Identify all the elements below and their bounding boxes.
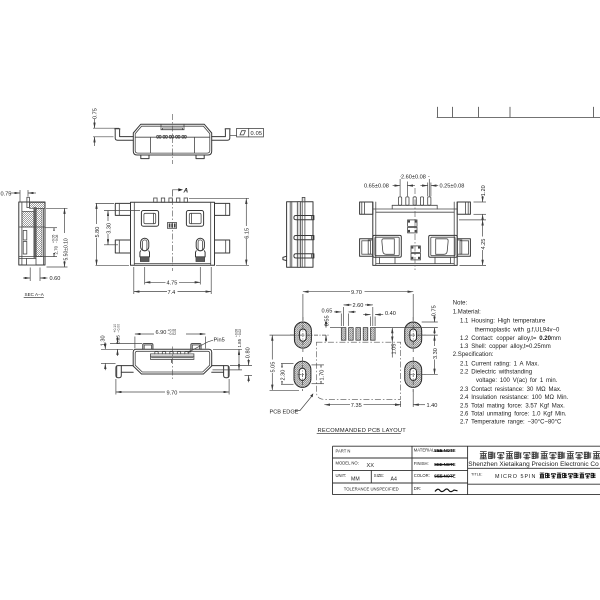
svg-text:2.60: 2.60 (353, 303, 364, 309)
svg-text:FINISH:: FINISH: (414, 461, 429, 466)
svg-text:2.1 Current rating: 1 A M: 2.1 Current rating: 1 A Max. (460, 362, 539, 368)
svg-text:A: A (183, 187, 189, 194)
svg-text:1.05: 1.05 (392, 344, 398, 355)
svg-text:9.70: 9.70 (351, 290, 362, 296)
svg-text:PART N: PART N (336, 448, 351, 453)
svg-text:voltage: 100 V(ac) for 1: voltage: 100 V(ac) for 1 min. (476, 378, 558, 384)
svg-text:0.05: 0.05 (251, 131, 263, 137)
svg-text:5.50±0.10: 5.50±0.10 (63, 238, 69, 260)
svg-text:1.Material:: 1.Material: (453, 310, 481, 316)
svg-text:1.70: 1.70 (319, 370, 325, 381)
svg-text:0.80: 0.80 (246, 347, 252, 358)
svg-text:0.25: 0.25 (116, 335, 121, 344)
svg-text:RECOMMANDED PCB LAYOUT: RECOMMANDED PCB LAYOUT (318, 428, 407, 434)
svg-text:COLOR:: COLOR: (414, 473, 430, 478)
svg-text:0.65±0.08: 0.65±0.08 (364, 184, 389, 190)
svg-text:−0.02: −0.02 (238, 329, 242, 337)
svg-text:MICRO 5PIN: MICRO 5PIN (495, 474, 536, 480)
svg-text:XX: XX (367, 463, 375, 469)
svg-text:1.1 Housing: High temperatu: 1.1 Housing: High temperature (460, 319, 546, 325)
svg-text:6.15: 6.15 (245, 228, 251, 239)
svg-text:2.30: 2.30 (280, 370, 286, 381)
svg-text:1.3 Shell: copper alloy,t=0: 1.3 Shell: copper alloy,t=0.25mm (460, 344, 551, 350)
svg-text:Pin5: Pin5 (214, 338, 225, 344)
svg-text:2.2 Dielectric withstanding: 2.2 Dielectric withstanding (460, 370, 532, 376)
svg-text:2.6 Total unmating force:: 2.6 Total unmating force: 1.0 Kgf Min. (460, 412, 567, 418)
svg-text:1.85: 1.85 (237, 338, 242, 347)
svg-text:Shenzhen Xietaikang Precision: Shenzhen Xietaikang Precision Electronic… (468, 461, 599, 468)
svg-text:2.4 Insulation resistance:: 2.4 Insulation resistance: 100 MΩ Min. (460, 395, 569, 401)
svg-text:5.80: 5.80 (95, 227, 101, 238)
svg-text:0.55: 0.55 (324, 315, 330, 326)
svg-text:A4: A4 (391, 477, 397, 483)
svg-text:7.4: 7.4 (168, 290, 176, 296)
svg-text:1.20: 1.20 (481, 185, 487, 196)
svg-text:MM: MM (351, 477, 360, 483)
svg-text:0.75: 0.75 (431, 305, 437, 316)
svg-text:TOLERANCE UNSPECIFIED: TOLERANCE UNSPECIFIED (344, 486, 399, 491)
svg-text:SIZE:: SIZE: (374, 473, 384, 478)
svg-text:−0.00: −0.00 (117, 324, 121, 333)
svg-text:0.75: 0.75 (92, 108, 98, 119)
svg-text:2.60±0.08: 2.60±0.08 (401, 174, 426, 180)
svg-text:thermoplastic with g.f,UL94v: thermoplastic with g.f,UL94v−0 (475, 328, 560, 334)
svg-text:SEC A−A: SEC A−A (25, 292, 45, 297)
svg-text:6.90: 6.90 (156, 330, 167, 336)
svg-text:3.30: 3.30 (106, 223, 112, 234)
svg-text:7.35: 7.35 (351, 403, 362, 409)
svg-text:0.65: 0.65 (322, 309, 333, 315)
svg-text:TITLE:: TITLE: (471, 473, 482, 477)
svg-text:4.75: 4.75 (167, 281, 178, 287)
svg-text:1.40: 1.40 (427, 403, 438, 409)
svg-text:1.30: 1.30 (100, 335, 106, 346)
svg-text:2.5 Total mating force: 3.: 2.5 Total mating force: 3.57 Kgf Max. (460, 404, 565, 410)
svg-text:2.3 Contact resistance: 30: 2.3 Contact resistance: 30 MΩ Max. (460, 387, 562, 393)
svg-text:2.70: 2.70 (54, 245, 59, 254)
svg-text:2.7 Temperature range: −30°: 2.7 Temperature range: −30°C~80°C (460, 420, 562, 426)
svg-text:DR:: DR: (414, 486, 421, 491)
svg-text:PCB EDGE: PCB EDGE (270, 409, 299, 415)
svg-text:2.Specification:: 2.Specification: (453, 352, 494, 358)
svg-text:0.25±0.08: 0.25±0.08 (440, 184, 465, 190)
svg-text:0.75: 0.75 (1, 191, 12, 197)
svg-text:4.25: 4.25 (481, 239, 487, 250)
svg-text:UNIT:: UNIT: (336, 473, 346, 478)
svg-text:Note:: Note: (453, 301, 468, 307)
svg-text:−0.08: −0.08 (55, 234, 59, 243)
svg-text:5.05: 5.05 (271, 362, 277, 373)
svg-text:0.40: 0.40 (385, 311, 396, 317)
svg-text:0.60: 0.60 (50, 276, 61, 282)
svg-text:1.2 Contact: copper alloy,t: 1.2 Contact: copper alloy,t= 0.20mm (460, 336, 561, 342)
svg-text:9.70: 9.70 (167, 390, 178, 396)
svg-text:−0.02: −0.02 (168, 332, 177, 336)
svg-text:3.30: 3.30 (433, 348, 439, 359)
svg-text:MATERIAL:: MATERIAL: (414, 448, 436, 453)
svg-text:MODEL NO:: MODEL NO: (336, 461, 359, 466)
